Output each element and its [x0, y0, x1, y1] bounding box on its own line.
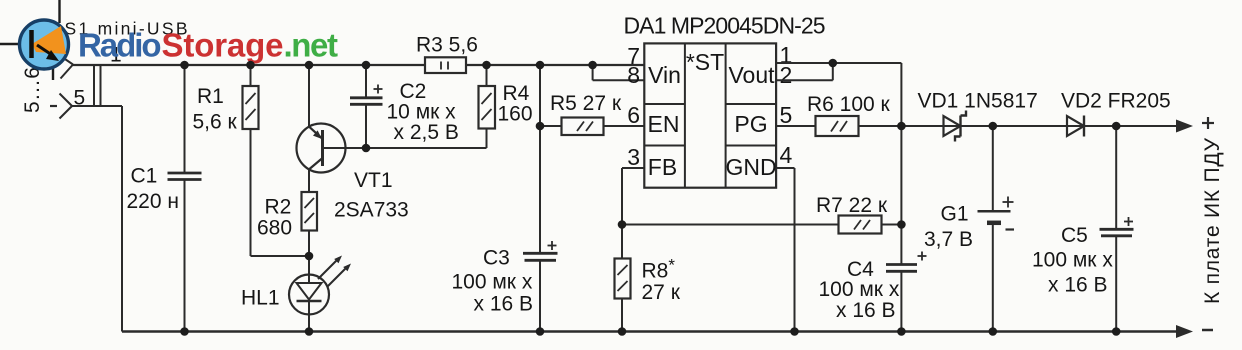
svg-text:160: 160: [498, 103, 533, 126]
resistor R6: [776, 116, 901, 136]
svg-text:R1: R1: [197, 85, 224, 108]
junction dots middle: [305, 59, 1121, 261]
wire connector pin5 to left drop: [72, 106, 122, 332]
svg-text:х 16 В: х 16 В: [474, 293, 534, 316]
svg-text:8: 8: [627, 62, 640, 88]
svg-text:х 2,5 В: х 2,5 В: [394, 121, 459, 144]
svg-text:5: 5: [780, 102, 793, 128]
svg-text:*ST: *ST: [686, 49, 724, 75]
svg-text:5...6: 5...6: [21, 67, 44, 113]
junction dots top rail: [180, 61, 597, 70]
svg-text:5,6 к: 5,6 к: [193, 111, 238, 134]
svg-text:6: 6: [627, 102, 640, 128]
svg-text:Storage: Storage: [162, 27, 284, 64]
logo text RadioStorage.net: [78, 27, 338, 64]
svg-text:100 мк х: 100 мк х: [1032, 249, 1113, 272]
label C2 10 мк х 2,5 В: [387, 80, 459, 144]
IC cell labels: [648, 49, 777, 180]
transistor VT1 2SA733: [297, 65, 346, 192]
capacitor C4: [886, 252, 927, 272]
svg-text:х 16 В: х 16 В: [1048, 274, 1108, 297]
svg-text:27 к: 27 к: [642, 281, 681, 304]
label C1 220 н: [127, 165, 179, 214]
svg-text:4: 4: [780, 142, 793, 168]
connector S1 mini-USB body double lines: [94, 65, 101, 106]
wire VT1 base line to C2 and R4: [323, 147, 487, 149]
svg-text:2: 2: [780, 62, 793, 88]
capacitor C1: [168, 65, 202, 332]
svg-text:Vin: Vin: [648, 62, 681, 88]
label C3 100 мк х 16 В: [452, 247, 534, 316]
logo transistor symbol (RadioStorage): [0, 0, 69, 80]
capacitor C2: [350, 65, 383, 148]
svg-text:DA1 MP20045DN-25: DA1 MP20045DN-25: [624, 13, 826, 39]
svg-text:3,7 В: 3,7 В: [924, 228, 973, 251]
LED HL1: [289, 256, 351, 332]
svg-text:100 мк х: 100 мк х: [819, 278, 900, 301]
svg-text:Vout: Vout: [728, 62, 775, 88]
svg-text:VD2 FR205: VD2 FR205: [1061, 90, 1171, 113]
svg-text:5: 5: [74, 87, 86, 110]
label C4 100 мк х 16 В: [819, 258, 900, 322]
wire Vout pin 2 riser: [776, 63, 833, 80]
wire pin 8 drop from top rail: [593, 65, 645, 80]
label R4 160: [498, 82, 533, 126]
wire output bus vertical (to R6, VD1, R7, C4): [900, 63, 902, 332]
wire FB node to R7 to C4 bus: [622, 224, 839, 226]
output plus sign: [1202, 117, 1214, 129]
battery G1: [978, 126, 1015, 332]
svg-text:R3 5,6: R3 5,6: [416, 34, 478, 57]
wire R1 bottom to LED node: [251, 255, 310, 257]
resistor R7: [839, 216, 902, 234]
wire Vout pin 1 to output bus: [776, 62, 901, 64]
wire GND pin 4 to bottom rail: [776, 168, 794, 332]
output minus sign: [1202, 329, 1213, 332]
svg-text:Radio: Radio: [78, 27, 162, 64]
resistor R8*: [615, 259, 631, 332]
svg-text:C1: C1: [131, 165, 158, 188]
connector S1 pin 5 contact: [60, 94, 73, 119]
svg-text:3: 3: [627, 144, 640, 170]
capacitor C3 branch wire: [539, 65, 541, 332]
label VT1 2SA733: [334, 169, 409, 222]
svg-text:VD1 1N5817: VD1 1N5817: [918, 90, 1038, 113]
svg-text:680: 680: [257, 217, 292, 240]
svg-text:R7 22 к: R7 22 к: [816, 194, 888, 217]
resistor R2: [302, 192, 318, 276]
diode VD1 1N5817 (Schottky): [944, 111, 967, 142]
diode VD2 FR205: [1067, 116, 1084, 137]
svg-text:2SA733: 2SA733: [334, 199, 409, 222]
label R1 5,6 к: [193, 85, 238, 134]
junction dots bottom rail: [180, 327, 1120, 336]
wire top +5V rail from connector pin 1 to DA1 Vin pin 7: [73, 64, 644, 66]
wire bottom common rail: [122, 330, 1178, 333]
wire FB pin 3 to R8: [622, 168, 644, 259]
op-amp/regulator IC DA1 MP20045DN-25 box: [644, 43, 776, 187]
svg-text:EN: EN: [648, 111, 680, 137]
svg-text:PG: PG: [734, 111, 767, 137]
connector S1 pin 1 contact: [61, 56, 74, 79]
capacitor C3: [523, 241, 558, 260]
svg-text:G1: G1: [941, 203, 969, 226]
label G1 3,7 В: [924, 203, 973, 252]
svg-text:R5 27 к: R5 27 к: [550, 92, 622, 115]
svg-text:C5: C5: [1061, 224, 1088, 247]
resistor R1: [243, 65, 259, 256]
label C5 100 мк х 16 В: [1032, 224, 1113, 297]
svg-text:х 16 В: х 16 В: [836, 299, 896, 322]
capacitor C5: [1100, 126, 1134, 332]
svg-text:К плате ИК ПДУ: К плате ИК ПДУ: [1201, 137, 1224, 304]
svg-text:HL1: HL1: [241, 287, 280, 310]
svg-text:R6 100 к: R6 100 к: [807, 93, 891, 116]
wire output line with diodes: [901, 125, 1178, 127]
svg-text:R2: R2: [265, 196, 292, 219]
svg-text:C3: C3: [483, 247, 510, 270]
svg-text:FB: FB: [648, 154, 677, 180]
pin numbers of DA1: [627, 42, 792, 170]
svg-text:220 н: 220 н: [127, 190, 179, 213]
resistor R4: [479, 65, 496, 148]
resistor R3 (in series in top rail): [425, 57, 466, 73]
label R8* 27 к: [642, 256, 681, 305]
output arrow minus lead: [1176, 325, 1193, 338]
resistor R5: [540, 118, 644, 136]
polarity minus near pin 5: [50, 105, 57, 107]
svg-text:.net: .net: [284, 27, 339, 64]
svg-text:GND: GND: [725, 154, 776, 180]
svg-text:100 мк х: 100 мк х: [452, 271, 533, 294]
label R2 680: [257, 196, 292, 240]
svg-text:VT1: VT1: [354, 169, 393, 192]
output arrow plus lead: [1176, 120, 1193, 133]
